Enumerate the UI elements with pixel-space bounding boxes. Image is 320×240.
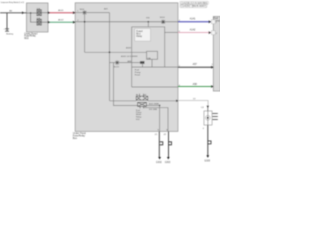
- svg-text:F23: F23: [146, 17, 149, 19]
- ground symbol fuel pump: [206, 155, 209, 157]
- node: entry junction in M22: [30, 12, 32, 14]
- connector arrow green wire at TIPM: [73, 21, 76, 24]
- svg-text:C3: C3: [201, 107, 204, 109]
- svg-text:Component Relay Module (1 of 2: Component Relay Module (1 of 2): [1, 1, 25, 4]
- inline connector bracket on left ground wire: [160, 142, 163, 145]
- fuel pump right pins: [212, 114, 218, 120]
- node: corner blob left ground drop: [159, 105, 161, 107]
- svg-text:87: 87: [144, 95, 146, 97]
- wire: box edge to splice S1: [76, 12, 85, 14]
- battery drop wire: [6, 13, 8, 29]
- right box: Fuel Pump Module: [213, 17, 220, 92]
- node: junction on green bus feeding step-down: [147, 21, 149, 23]
- splice S2 (star) mid: [115, 60, 119, 64]
- svg-text:M22: M22: [24, 38, 29, 40]
- svg-text:2: 2: [216, 33, 217, 35]
- fuse F5 rectangle: [147, 51, 158, 59]
- wire: splice S2 right arm: [119, 62, 142, 64]
- connector arrow pink: [209, 31, 212, 34]
- svg-text:A142: A142: [190, 29, 196, 32]
- connector list tag box row 1: [180, 1, 209, 4]
- svg-text:C1415C (BK/6-WAY): C1415C (BK/6-WAY): [181, 4, 207, 8]
- fuel pump internal node: [207, 117, 209, 119]
- svg-text:Battery: Battery: [6, 32, 14, 35]
- blue wire exit: [178, 21, 211, 23]
- small box: fuse/relay box M22: [27, 3, 49, 32]
- svg-text:G303: G303: [165, 162, 171, 164]
- pink wire exit: [178, 32, 211, 34]
- svg-text:Z2: Z2: [164, 134, 167, 136]
- wire V2: splice S2 down to relay coil: [114, 63, 138, 106]
- connector arrow at relay output box exit: [176, 100, 179, 103]
- svg-text:S110: S110: [160, 17, 166, 19]
- wire V1: down to relay feed: [109, 13, 111, 101]
- svg-text:B(+): B(+): [136, 34, 141, 36]
- svg-text:A57: A57: [193, 63, 198, 66]
- wire: M22 entry to fuse 1: [27, 12, 37, 14]
- svg-text:G305: G305: [204, 160, 210, 162]
- connector arrow green2: [211, 85, 214, 88]
- fuel pump ground wire: [207, 125, 209, 155]
- ground symbol left: [158, 157, 161, 159]
- connector arrow dark: [211, 66, 214, 69]
- inline connector on battery feed: [22, 11, 24, 14]
- wire: fuse F5 bottom to H4: [151, 59, 153, 67]
- ground symbol right: [167, 157, 170, 159]
- wire: relay output right to box edge: [148, 100, 178, 102]
- wire: left step drop: [131, 27, 133, 87]
- green2 wire exit: [178, 86, 213, 88]
- svg-text:Feed: Feed: [135, 74, 141, 76]
- pin box blue at right module: [211, 20, 215, 24]
- fuse F2 in M22: [37, 19, 42, 25]
- svg-text:G302: G302: [156, 162, 162, 164]
- wire H1: [85, 51, 147, 53]
- svg-text:Fused: Fused: [136, 31, 143, 33]
- wire: M22 branch down: [31, 13, 37, 22]
- svg-text:A142: A142: [58, 19, 64, 22]
- ground wire left: [158, 131, 160, 157]
- wire: fuse1 output to box edge: [42, 12, 49, 14]
- wire: S2 arm corner down to H4: [142, 64, 144, 68]
- ground wire right: [168, 131, 170, 157]
- green wire to TIPM: [48, 21, 76, 23]
- big box: Totally Integrated Power Module: [75, 3, 178, 132]
- fuel pump internal line: [207, 111, 209, 125]
- wire V3: pink step down to H4: [164, 32, 166, 67]
- svg-text:Fuel: Fuel: [214, 18, 219, 20]
- svg-text:Relay: Relay: [136, 36, 143, 38]
- svg-text:A141: A141: [126, 47, 132, 50]
- node: V1 x H1 junction: [109, 51, 111, 53]
- splice S3 (star) on green bus: [161, 20, 165, 24]
- connector arrow on red wire: [48, 11, 51, 14]
- svg-text:A0: A0: [9, 9, 12, 12]
- wire H4: [132, 66, 178, 68]
- svg-text:A58: A58: [193, 83, 198, 86]
- inline connector bracket on right ground wire: [169, 142, 172, 145]
- dark wire exit: [178, 66, 213, 68]
- wire: step-down from green bus: [132, 22, 178, 33]
- inline connector bracket on pump ground wire: [208, 141, 211, 144]
- wire H5: [132, 86, 178, 88]
- fuse F1 in M22: [37, 10, 42, 16]
- svg-text:4: 4: [203, 128, 204, 130]
- connector arrow blue: [209, 20, 212, 23]
- svg-text:A141: A141: [190, 18, 196, 21]
- pin box pink at right module: [211, 31, 215, 35]
- wire: relay bottom pin to right ground drop: [144, 108, 169, 132]
- battery feed wire: [0, 12, 27, 14]
- connector arrow on top pin: [207, 106, 209, 108]
- connector arrow on green wire: [48, 21, 51, 24]
- label box (white) under step wire: [135, 29, 151, 42]
- fuel pump top pin: [207, 106, 209, 111]
- red wire to TIPM: [48, 12, 76, 14]
- svg-text:K31 18BK: K31 18BK: [149, 109, 158, 111]
- wire V0: splice S1 down: [84, 13, 86, 53]
- battery symbol: [5, 29, 9, 32]
- svg-text:A141: A141: [58, 9, 64, 12]
- wire: V1 to splice S2: [110, 62, 116, 64]
- svg-text:86: 86: [136, 95, 138, 97]
- svg-text:A141 14 DG/WH: A141 14 DG/WH: [121, 55, 138, 58]
- relay assembly: fuel pump relay: [136, 94, 148, 109]
- inline connector blob on S2 arm: [140, 61, 145, 64]
- wire: relay lower output to left ground drop: [146, 105, 159, 131]
- green bus wire through TIPM: [75, 21, 178, 23]
- white wire from box to fuel pump: [178, 101, 208, 106]
- node: V0 on green bus: [84, 21, 86, 23]
- svg-text:1: 1: [216, 22, 217, 24]
- wire: splice S1 to V1 corner: [85, 12, 110, 14]
- svg-text:S122: S122: [114, 67, 120, 69]
- wire: fuse2 output to box edge: [42, 21, 49, 23]
- wire: V1 corner into relay: [110, 100, 137, 102]
- svg-text:Z1: Z1: [155, 134, 158, 136]
- connector arrow red wire at TIPM: [73, 11, 76, 14]
- connector list tag box row 2: [180, 5, 207, 8]
- svg-text:A141 18WH: A141 18WH: [149, 102, 159, 105]
- fuel pump component box bottom right: [204, 111, 212, 125]
- splice S1 (star) on red feed: [82, 10, 86, 14]
